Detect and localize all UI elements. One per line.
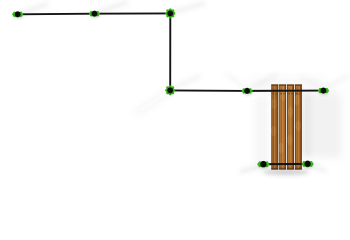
warm tone overlay on planks (271, 84, 302, 169)
wooden plank 4 (294, 84, 302, 169)
node G (bottom-left) (257, 161, 269, 169)
wire D-E-F (second horizontal, over planks) (170, 89, 323, 92)
node E (242, 88, 253, 96)
wooden plank 3 (287, 84, 294, 169)
node D (165, 85, 175, 95)
faint up-left flare from node E (226, 74, 246, 88)
nail heads on planks (top pair, below top wire) (273, 93, 301, 94)
faint grey band above second wire near planks (252, 78, 324, 89)
soft ground shadow under plank component (263, 169, 309, 175)
wooden plank 2 (279, 84, 287, 169)
soft diagonal floor shadow cast down-left from node D / vertical wire (136, 92, 169, 113)
faint up-left flare from node F (300, 76, 322, 88)
wire A-B-C (top horizontal) (18, 12, 171, 15)
soft shadow streak up-right from node C (171, 3, 205, 13)
soft shadow left of bottom-left node G (240, 166, 261, 172)
wire C-D (vertical) (169, 13, 171, 90)
wire G-H (bottom bar, over planks) (263, 163, 307, 165)
soft shadow streak up-right from node E (248, 74, 278, 90)
node A (12, 11, 23, 19)
soft shadow streak up-right from node B (95, 2, 128, 13)
soft ambient shadow wash right of plank component (302, 92, 342, 158)
soft shadow streak up-right from node D (171, 76, 200, 89)
soft ambient shadow column left of plank component (256, 96, 268, 168)
node H (bottom-right) (302, 161, 314, 169)
node B (89, 11, 100, 19)
soft shadow right of bottom-right node H (310, 166, 326, 171)
soft shadow streak up-right from node A (18, 4, 48, 14)
node C (165, 8, 175, 18)
node F (318, 88, 329, 96)
soft shadow streak up-right from node F (324, 76, 348, 89)
wooden plank 1 (271, 84, 278, 169)
nail heads on planks (bottom pair, above bottom bar) (273, 167, 301, 168)
